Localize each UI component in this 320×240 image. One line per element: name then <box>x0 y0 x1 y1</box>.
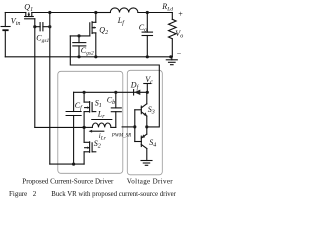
svg-text:Cgs2: Cgs2 <box>81 46 94 57</box>
svg-text:RLd: RLd <box>161 2 173 13</box>
box: voltage driver dashed box <box>127 70 162 175</box>
wire: switch node to Lf <box>96 12 111 14</box>
node: switch node dot at x=49.5 <box>48 11 51 14</box>
svg-text:S2: S2 <box>94 139 101 150</box>
svg-text:Buck VR with proposed current-: Buck VR with proposed current-source dri… <box>51 191 176 198</box>
node: Cgs2 ground junction <box>77 55 80 58</box>
wire: CSD bottom rail <box>50 163 84 165</box>
node: gate/Cgs1 junction <box>33 25 36 28</box>
wire: ground return rail <box>5 56 172 58</box>
svg-text:Vin: Vin <box>11 16 21 27</box>
svg-text:Vc: Vc <box>145 75 153 86</box>
svg-text:Q2: Q2 <box>99 25 108 36</box>
svg-text:Df: Df <box>130 80 140 91</box>
diode Df <box>134 90 141 95</box>
wire: Q1 gate drop <box>34 19 36 128</box>
wire: CSD bootstrap rail <box>74 91 148 93</box>
capacitor Cb <box>111 92 121 127</box>
svg-text:S1: S1 <box>95 98 102 109</box>
svg-text:Cf: Cf <box>75 101 83 112</box>
source Vin battery <box>1 13 10 57</box>
ground (voltage driver) <box>141 161 152 166</box>
node: base tie junction <box>133 125 136 128</box>
svg-text:PWM_SR: PWM_SR <box>111 133 131 138</box>
node: output node dot <box>146 11 149 14</box>
capacitor Cf <box>66 92 81 164</box>
supply Vc terminal <box>144 84 151 93</box>
node: S1 drain dot <box>83 91 86 94</box>
node: Cgs1 right junction <box>48 25 51 28</box>
node: RLd bottom junction <box>169 55 172 58</box>
wire: Q1 source line down <box>49 13 51 165</box>
transistor Q2 (SR MOSFET, vertical) <box>70 13 96 57</box>
current arrow iLr <box>89 130 104 133</box>
transistor Q1 (high-side MOSFET, horizontal) <box>25 13 35 19</box>
svg-text:S3: S3 <box>148 105 155 116</box>
wire: Q1 source to switching node <box>32 12 96 14</box>
svg-text:−: − <box>177 49 182 58</box>
node: driver output junction <box>145 125 148 128</box>
wire: Q2 gate to voltage driver output <box>70 36 159 127</box>
svg-text:Figure2: Figure2 <box>9 190 37 198</box>
svg-text:Q1: Q1 <box>24 2 33 13</box>
transistor S3 (NPN) <box>135 92 147 127</box>
svg-text:Proposed Current-Source Driver: Proposed Current-Source Driver <box>22 178 114 186</box>
svg-text:Vo: Vo <box>175 29 183 40</box>
wire: PWM_SR input <box>122 126 135 128</box>
svg-text:iLr: iLr <box>99 132 107 142</box>
node: Df/Vc junction <box>146 91 149 94</box>
svg-text:Lr: Lr <box>97 109 105 120</box>
inductor Lr <box>84 120 116 128</box>
wire: top rail Vin+ to Q1 <box>5 12 26 14</box>
node: half-bridge midpoint <box>83 126 86 129</box>
wire: Q1 gate wire to midpoint <box>35 126 84 128</box>
node: Q2 source ground junction <box>94 55 97 58</box>
capacitor Cgs2 <box>73 36 86 57</box>
node: Q2 gate / Cgs2 junction <box>77 34 80 37</box>
transistor S1 <box>84 92 96 127</box>
node: Co bottom junction <box>146 55 149 58</box>
capacitor Cgs1 <box>35 23 50 31</box>
svg-text:Cgs1: Cgs1 <box>36 33 49 44</box>
svg-text:+: + <box>178 9 183 18</box>
node: Cb top dot <box>114 91 117 94</box>
capacitor Co <box>142 13 152 57</box>
transistor S4 (PNP) <box>135 127 147 161</box>
box: proposed current-source driver dashed box <box>58 71 123 173</box>
inductor Lf <box>110 8 138 13</box>
svg-text:Cb: Cb <box>107 95 115 106</box>
wire: Lf to output node <box>138 12 172 14</box>
ground (main) <box>166 57 177 65</box>
resistor RLd <box>169 13 177 57</box>
node: Q2 drain dot <box>94 11 97 14</box>
svg-text:Voltage Driver: Voltage Driver <box>127 178 173 186</box>
svg-text:Lf: Lf <box>117 16 125 26</box>
svg-text:Co: Co <box>139 23 147 34</box>
svg-text:S4: S4 <box>149 138 156 149</box>
transistor S2 <box>84 127 96 164</box>
wire: base tie line <box>134 110 136 142</box>
node: Cf bottom junction <box>72 163 75 166</box>
